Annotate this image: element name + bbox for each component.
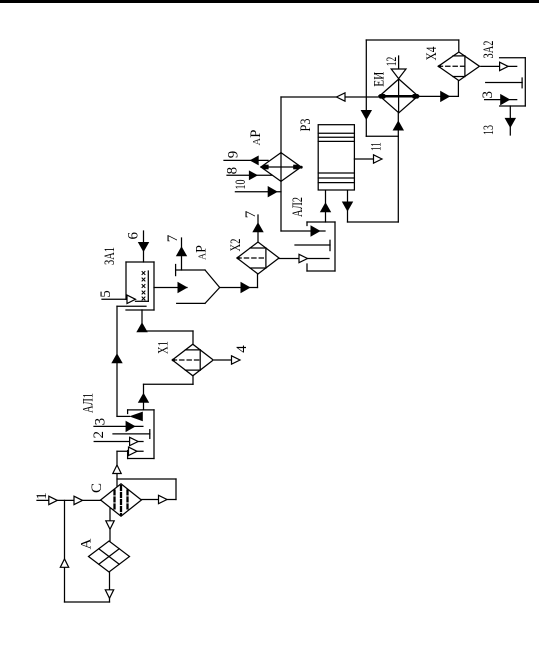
svg-text:3: 3 (93, 418, 109, 426)
svg-text:Х2: Х2 (228, 239, 244, 252)
svg-text:7: 7 (165, 234, 181, 242)
svg-text:8: 8 (225, 167, 241, 175)
svg-text:С: С (89, 483, 105, 493)
svg-text:АЛ2: АЛ2 (290, 197, 306, 217)
svg-text:6: 6 (126, 232, 142, 240)
svg-text:7: 7 (243, 210, 259, 218)
svg-text:12: 12 (384, 57, 400, 67)
svg-text:Х1: Х1 (156, 341, 172, 354)
svg-text:13: 13 (481, 125, 497, 135)
svg-text:ЗА1: ЗА1 (102, 247, 118, 265)
svg-text:3: 3 (480, 91, 496, 99)
svg-text:10: 10 (233, 180, 249, 190)
svg-text:АР: АР (194, 245, 210, 260)
svg-text:4: 4 (234, 345, 250, 353)
svg-text:ЗА2: ЗА2 (481, 41, 497, 59)
svg-text:АЛ1: АЛ1 (81, 393, 97, 413)
svg-text:ЕИ: ЕИ (372, 72, 388, 87)
svg-text:А: А (79, 538, 95, 549)
svg-text:11: 11 (369, 142, 385, 151)
svg-text:Р3: Р3 (298, 119, 314, 132)
svg-text:Х4: Х4 (424, 46, 440, 60)
svg-text:9: 9 (226, 151, 242, 159)
svg-text:5: 5 (98, 290, 114, 298)
svg-text:АР: АР (248, 130, 264, 146)
svg-text:1: 1 (34, 492, 50, 500)
svg-text:2: 2 (91, 431, 107, 439)
